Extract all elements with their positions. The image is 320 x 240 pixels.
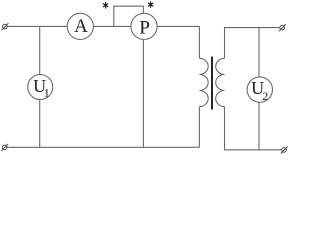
wire primary bottom lead	[198, 107, 200, 148]
wire secondary top lead	[225, 28, 280, 59]
transformer T1 primary winding	[199, 58, 208, 106]
ammeter A	[67, 13, 93, 39]
wire wattmeter voltage loop	[114, 6, 144, 26]
terminal bottom-right	[281, 147, 288, 154]
voltmeter U2	[247, 77, 272, 103]
wire U2 bottom lead	[258, 90, 260, 150]
polarity asterisk (current coil)	[103, 2, 108, 8]
polarity asterisk (voltage coil)	[148, 1, 153, 7]
transformer T1 core	[211, 57, 213, 110]
voltmeter U1	[28, 75, 53, 100]
terminal bottom-left	[1, 144, 8, 151]
svg-text:A: A	[74, 16, 88, 37]
svg-text:P: P	[139, 17, 150, 38]
wattmeter P	[131, 13, 157, 39]
wire U1 top lead	[39, 26, 41, 87]
wire U2 top lead	[258, 28, 260, 90]
wire bottom left horizontal	[7, 146, 199, 148]
terminal top-left	[2, 23, 9, 30]
wire top left horizontal	[7, 25, 199, 27]
svg-text:1: 1	[44, 86, 50, 100]
wire primary top lead (corner down)	[198, 26, 200, 58]
wire secondary bottom lead	[225, 107, 282, 150]
wire P bottom lead	[142, 26, 144, 147]
svg-text:2: 2	[262, 89, 268, 103]
terminal top-right	[279, 24, 286, 31]
transformer T1 secondary winding	[216, 58, 225, 106]
wire U1 bottom lead	[39, 87, 41, 147]
